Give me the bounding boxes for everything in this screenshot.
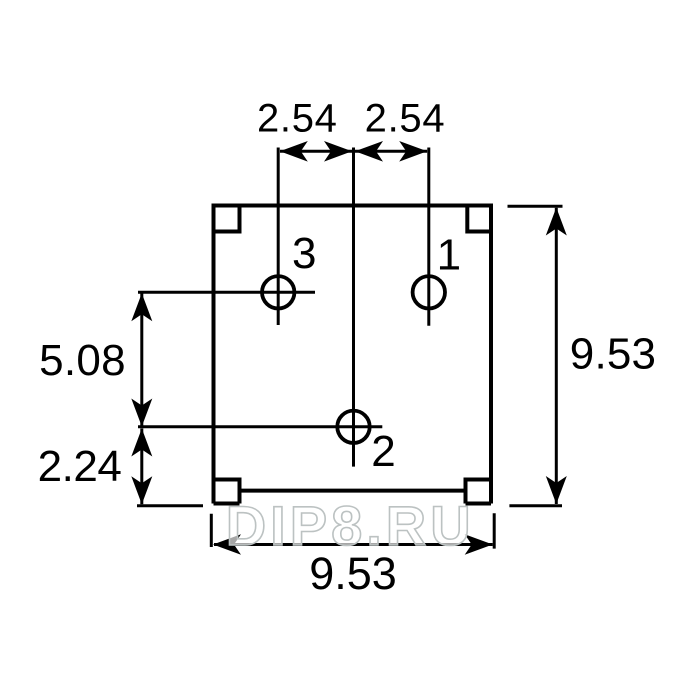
body outline (trimmer package, bottom view)	[214, 206, 492, 504]
dimension 2.24: extension line bottom	[137, 504, 203, 507]
dimension 9.53 bottom: extension lines	[211, 513, 494, 548]
svg-text:2.24: 2.24	[38, 442, 122, 491]
bottom edge line	[240, 489, 466, 493]
corner standoff bottom-right	[466, 480, 492, 504]
dimension 2.54 left: line and arrows	[280, 141, 352, 162]
corner standoff bottom-left	[214, 480, 240, 504]
svg-text:3: 3	[292, 229, 316, 278]
dimension 9.53 bottom: line and arrows	[213, 534, 493, 555]
pin 2 hole	[337, 411, 369, 443]
svg-text:1: 1	[437, 231, 461, 280]
corner notch top-right	[467, 206, 491, 232]
dimension 9.53 right: line and arrows	[546, 208, 567, 505]
dimension 9.53 right: extension lines	[508, 206, 563, 506]
corner notch top-left	[214, 206, 240, 232]
pin 3 centerline horizontal	[138, 291, 315, 294]
pin 3 hole	[262, 276, 294, 308]
dimension 5.08: vertical line and arrows	[131, 293, 152, 426]
svg-text:DIP8.RU: DIP8.RU	[226, 494, 475, 557]
dimension 2.54 right: line and arrows	[355, 141, 427, 162]
svg-text:2.54: 2.54	[257, 97, 338, 141]
dimension 2.24: vertical line and arrows	[131, 429, 152, 505]
svg-text:2: 2	[371, 427, 395, 476]
pin 1 centerline vertical	[427, 148, 430, 326]
svg-text:9.53: 9.53	[570, 329, 656, 378]
pin 3 centerline vertical	[277, 148, 280, 326]
svg-text:2.54: 2.54	[365, 97, 446, 141]
pin 1 hole	[413, 276, 445, 308]
pin 2 centerline vertical	[352, 148, 355, 467]
svg-text:5.08: 5.08	[39, 336, 126, 385]
pin 2 centerline horizontal	[138, 425, 382, 428]
